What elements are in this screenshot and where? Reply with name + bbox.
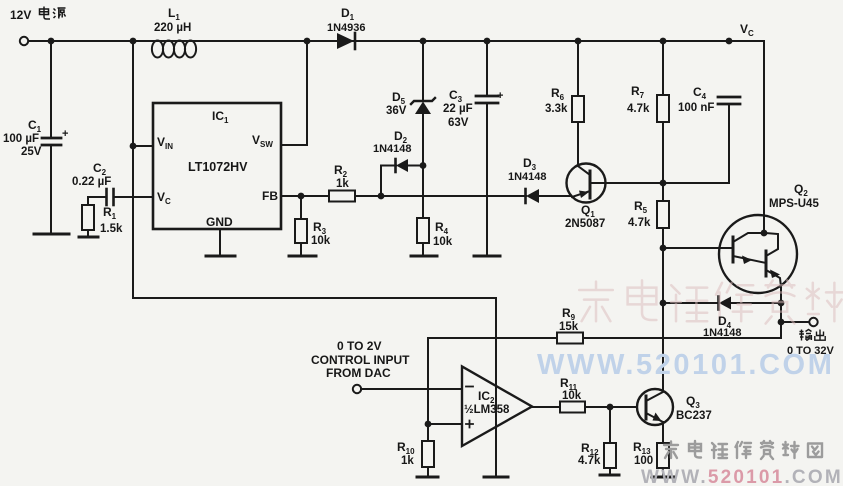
svg-text:LT1072HV: LT1072HV <box>188 160 248 174</box>
svg-text:L1: L1 <box>168 6 180 22</box>
capacitor C3 22uF <box>476 41 498 256</box>
transistor Q1 2N5087 <box>567 41 606 203</box>
svg-text:10k: 10k <box>311 235 331 247</box>
output terminal <box>809 318 817 326</box>
IC1 LT1072HV <box>153 103 281 229</box>
wire R11 to Q3 base <box>585 406 645 408</box>
svg-text:0.22 µF: 0.22 µF <box>72 176 111 188</box>
12V input terminal <box>20 37 28 45</box>
svg-text:10k: 10k <box>562 390 582 402</box>
svg-text:1N4148: 1N4148 <box>508 171 547 183</box>
svg-text:R3: R3 <box>313 220 327 236</box>
node VSW tap <box>304 38 311 45</box>
svg-text:1.5k: 1.5k <box>100 223 123 235</box>
svg-text:1k: 1k <box>336 178 349 190</box>
svg-text:1N4936: 1N4936 <box>327 22 366 34</box>
op-amp plus sign <box>466 421 473 428</box>
watermark middle hanzi row <box>579 280 843 323</box>
resistor R11 10k <box>560 402 585 413</box>
resistor R3 10k <box>295 196 307 256</box>
wire IC1 GND pin <box>219 229 221 256</box>
transistor Q3 BC237 <box>637 389 673 425</box>
ground R12 <box>600 474 619 477</box>
svg-text:C2: C2 <box>93 161 107 177</box>
svg-text:1N4148: 1N4148 <box>703 327 742 339</box>
capacitor C2 0.22uF <box>88 189 114 205</box>
zener D5 36V <box>411 41 435 165</box>
svg-text:+: + <box>497 90 503 102</box>
node output junction <box>778 319 785 326</box>
svg-text:4.7k: 4.7k <box>628 217 651 229</box>
diode D4 1N4148 <box>663 297 781 310</box>
svg-text:C1: C1 <box>28 118 42 134</box>
svg-text:2N5087: 2N5087 <box>565 218 605 230</box>
ground C3 <box>474 255 500 258</box>
svg-text:4.7k: 4.7k <box>578 455 601 467</box>
wire Q2 emitter column <box>780 287 782 338</box>
svg-text:WWW.520101.COM: WWW.520101.COM <box>641 467 843 486</box>
node C1 tap <box>48 38 55 45</box>
resistor R10 1k <box>422 424 434 477</box>
svg-text:36V: 36V <box>386 105 407 117</box>
wire VSW pin <box>281 41 307 145</box>
svg-text:GND: GND <box>206 215 233 229</box>
node +input R10 junction <box>425 421 432 428</box>
DAC input terminal <box>353 385 361 393</box>
ground IC1 <box>206 255 235 258</box>
svg-text:BC237: BC237 <box>676 410 712 422</box>
wire R7 column <box>662 41 664 95</box>
svg-text:Q3: Q3 <box>686 394 700 410</box>
svg-text:25V: 25V <box>21 146 42 158</box>
svg-text:22 µF: 22 µF <box>443 103 473 115</box>
svg-text:220 µH: 220 µH <box>154 22 191 34</box>
wire R9 left corner down to +input <box>427 338 429 424</box>
capacitor C4 100nF <box>718 97 740 104</box>
svg-text:100 µF: 100 µF <box>3 133 39 145</box>
transistor Q2 MPS-U45 darlington <box>660 215 797 293</box>
svg-text:FB: FB <box>262 189 278 203</box>
diode D3 1N4148 <box>526 189 573 203</box>
resistor R7 4.7k <box>657 95 669 122</box>
wire VIN column down to lower rail <box>132 41 134 298</box>
svg-text:FROM DAC: FROM DAC <box>326 366 391 380</box>
capacitor C1 100uF <box>34 41 69 234</box>
wire R5 down to Q3 collector <box>662 228 664 392</box>
svg-text:D5: D5 <box>392 90 406 106</box>
ground R3 <box>289 255 316 258</box>
resistor R13 100 <box>657 422 669 477</box>
svg-text:12V: 12V <box>10 8 31 22</box>
node C3 tap <box>484 38 491 45</box>
op-amp minus sign <box>466 386 473 388</box>
svg-text:C3: C3 <box>449 88 463 104</box>
inductor L1 <box>152 41 196 58</box>
diode D1 1N4936 <box>337 33 355 49</box>
ground R13 <box>652 476 674 479</box>
node R12 junction <box>607 404 614 411</box>
svg-text:4.7k: 4.7k <box>627 103 650 115</box>
svg-text:R4: R4 <box>435 220 449 236</box>
svg-text:MPS-U45: MPS-U45 <box>769 198 819 210</box>
svg-text:R5: R5 <box>634 199 648 215</box>
svg-text:Q1: Q1 <box>581 203 595 219</box>
diode D2 1N4148 <box>396 159 424 172</box>
wire R9 feedback line <box>428 337 781 339</box>
svg-text:R6: R6 <box>551 86 565 102</box>
svg-text:63V: 63V <box>448 117 469 129</box>
resistor R4 10k <box>417 165 429 256</box>
node base-R7-R5 junction <box>660 180 667 187</box>
ground R1 <box>79 236 98 239</box>
svg-text:C4: C4 <box>693 85 707 101</box>
svg-text:R7: R7 <box>631 84 645 100</box>
wire to VIN pin <box>133 145 153 147</box>
ground R10 <box>417 476 438 479</box>
svg-text:+: + <box>62 128 68 140</box>
svg-text:0 TO 2V: 0 TO 2V <box>337 339 381 353</box>
svg-text:R2: R2 <box>334 163 348 179</box>
wire lower rail to op-amp supply <box>133 297 496 299</box>
svg-text:10k: 10k <box>433 236 453 248</box>
node D4 left junction <box>660 300 667 307</box>
svg-text:Q2: Q2 <box>794 182 808 198</box>
wire to non-inverting input <box>428 423 462 425</box>
wire Q1 base to C4 node <box>590 104 729 183</box>
resistor R1 1.5k <box>82 197 94 237</box>
node D4 right junction <box>778 300 785 307</box>
svg-text:R9: R9 <box>562 306 576 322</box>
svg-text:R1: R1 <box>103 205 117 221</box>
wire op-amp supply and ground <box>495 298 497 477</box>
wire DAC to inverting input <box>361 388 462 390</box>
ground R4 <box>411 255 437 258</box>
svg-text:1N4148: 1N4148 <box>373 143 412 155</box>
node D2 branch <box>378 193 385 200</box>
svg-text:D1: D1 <box>341 6 355 22</box>
svg-text:100: 100 <box>634 455 653 467</box>
svg-text:½LM358: ½LM358 <box>464 404 510 416</box>
node C4 tap <box>726 38 733 45</box>
svg-text:0 TO 32V: 0 TO 32V <box>787 345 835 357</box>
svg-text:R13: R13 <box>633 440 651 456</box>
resistor R6 3.3k <box>572 96 584 122</box>
node R6 tap <box>575 38 582 45</box>
svg-text:D3: D3 <box>523 156 537 172</box>
node VIN column tap <box>130 38 137 45</box>
node VIN pin tap <box>130 143 137 150</box>
wire R7 to R5 <box>662 122 664 201</box>
wire VC pin to C2 <box>114 196 153 198</box>
wire Vc corner down to Q2 collector <box>763 41 765 233</box>
op-amp IC2 half LM358 <box>462 367 532 447</box>
svg-text:1k: 1k <box>401 455 414 467</box>
resistor R2 1k <box>329 191 355 202</box>
node R7 tap <box>660 38 667 45</box>
wire top rail <box>28 40 764 42</box>
svg-text:VC: VC <box>740 22 754 38</box>
ground op-amp <box>484 476 508 479</box>
resistor R12 4.7k <box>604 407 616 475</box>
svg-text:3.3k: 3.3k <box>545 103 568 115</box>
svg-text:CONTROL INPUT: CONTROL INPUT <box>311 353 410 367</box>
resistor R5 4.7k <box>657 201 669 228</box>
wire D2 branch up <box>381 166 396 197</box>
wire to output terminal <box>781 321 809 323</box>
svg-text:R10: R10 <box>397 440 415 456</box>
resistor R9 15k <box>557 333 583 344</box>
svg-text:15k: 15k <box>559 321 579 333</box>
watermark bottom hanzi row <box>664 441 822 459</box>
node R3 tap <box>298 193 305 200</box>
node D2-D5-R4 junction <box>420 162 427 169</box>
wire FB line <box>281 195 526 197</box>
wire op-amp output <box>532 406 560 408</box>
svg-text:100 nF: 100 nF <box>678 102 714 114</box>
node D5 tap <box>420 38 427 45</box>
label output hanzi <box>799 330 825 341</box>
